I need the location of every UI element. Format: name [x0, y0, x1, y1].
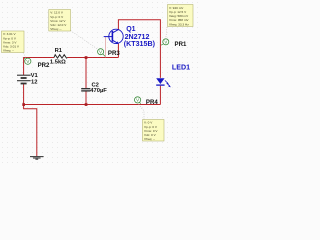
wire LED1 bottom to ground rail [159, 86, 161, 105]
leader line box3 to PR1 [166, 27, 167, 38]
probe readout box PR4 [143, 120, 165, 142]
probe PR2 [24, 58, 31, 64]
svg-text:R1: R1 [55, 48, 63, 54]
svg-text:PR1: PR1 [175, 41, 187, 48]
junction battery to ground rail [22, 103, 25, 106]
wire battery V1 bottom lead [23, 84, 25, 105]
probe readout box PR3 [49, 10, 71, 32]
junction node A (R1/C2) [85, 56, 88, 59]
svg-text:Vfreq: --: Vfreq: -- [50, 27, 61, 31]
wire ground branch [24, 105, 37, 157]
svg-text:Vfreq: --: Vfreq: -- [3, 49, 14, 53]
wire collector of Q1 to LED1 top [118, 20, 160, 78]
probe readout box PR2 [2, 31, 25, 53]
svg-text:(KT315B): (KT315B) [124, 40, 156, 48]
svg-text:V: V [164, 40, 167, 45]
svg-text:V: V [26, 59, 29, 64]
svg-text:Q1: Q1 [126, 26, 135, 33]
resistor R1 [54, 55, 68, 58]
wire emitter lead of Q1 [117, 44, 119, 58]
svg-text:Vfreq: 33.3 Hz: Vfreq: 33.3 Hz [169, 22, 189, 26]
battery V1 [17, 75, 31, 83]
leader line box1 to PR2 [23, 53, 26, 59]
wire capacitor C2 branch top [85, 58, 87, 89]
wire bottom ground rail [24, 104, 161, 106]
svg-text:Vfreq: --: Vfreq: -- [144, 137, 155, 141]
capacitor C2 [81, 89, 90, 91]
probe PR1 [161, 39, 169, 45]
svg-text:470µF: 470µF [90, 88, 107, 94]
svg-text:PR3: PR3 [108, 50, 120, 57]
junction C2 to ground rail [85, 103, 88, 106]
svg-text:LED1: LED1 [172, 64, 190, 72]
wire base tap of Q1 [105, 37, 107, 58]
probe PR4 [135, 97, 141, 104]
svg-text:V1: V1 [31, 73, 39, 79]
svg-text:PR2: PR2 [38, 62, 50, 69]
probe readout box PR1 [168, 5, 194, 27]
svg-text:V: V [136, 98, 139, 103]
ground [30, 157, 44, 160]
probe PR3 [98, 49, 106, 57]
wire capacitor C2 branch bottom [85, 91, 87, 104]
wire R1 right to emitter of Q1 [68, 57, 119, 59]
LED D1 [156, 78, 171, 87]
svg-text:1.5kΩ: 1.5kΩ [50, 60, 66, 66]
transistor Q1 [104, 29, 124, 44]
svg-text:PR4: PR4 [146, 99, 158, 106]
wire battery V1 top lead to node A [24, 58, 54, 76]
leader line PR4 to box4 [139, 104, 144, 119]
svg-text:12: 12 [31, 79, 37, 85]
leader line box2 to PR3 [71, 31, 99, 50]
svg-text:V: V [99, 49, 102, 54]
